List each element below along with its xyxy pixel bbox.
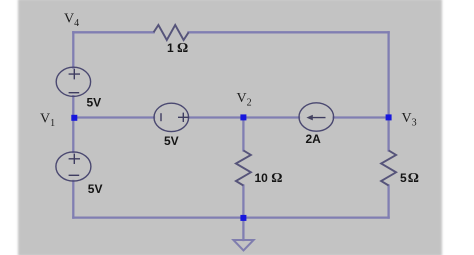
current source IS1 circle [299, 103, 334, 131]
VS2 minus sign [69, 174, 80, 176]
wire right vertical lower (R3 bottom to bottom rail) [387, 186, 389, 218]
VS1 minus sign [69, 92, 80, 94]
wire left vertical (V1 source bottom to V1 node) [72, 96, 74, 117]
svg-text:V4: V4 [64, 12, 79, 30]
svg-text:5V: 5V [164, 134, 179, 148]
svg-text:1 Ω: 1 Ω [167, 41, 188, 56]
svg-text:5Ω: 5Ω [400, 171, 419, 186]
wire middle horizontal V1 to V2 source [73, 116, 154, 118]
VS3 minus sign (vertical bar, rotated) [160, 113, 162, 121]
voltage source VS2 circle [56, 152, 91, 181]
voltage source VS3 circle (middle) [154, 103, 189, 131]
node bottom junction square [240, 215, 246, 221]
svg-text:5V: 5V [87, 96, 102, 110]
IS1 arrow shaft [309, 117, 326, 119]
ground symbol triangle [233, 240, 253, 250]
svg-text:V2: V2 [237, 91, 252, 109]
svg-text:V1: V1 [40, 111, 55, 129]
svg-text:5V: 5V [88, 182, 103, 196]
voltage source VS1 circle [56, 67, 90, 96]
wire ground stub [242, 218, 244, 240]
node V1 square [71, 115, 77, 121]
wire middle horizontal current source to V3 [334, 116, 389, 118]
wire top-left vertical (V4 branch) [72, 32, 74, 67]
VS2 plus sign [69, 154, 80, 164]
wire left vertical lower (source bottom to bottom rail) [72, 181, 74, 218]
resistor R3 5ohm zigzag [381, 150, 396, 185]
wire right vertical (V3 to R3 top) [387, 118, 389, 151]
svg-text:10 Ω: 10 Ω [255, 171, 283, 186]
resistor R1 1ohm zigzag [154, 25, 189, 40]
wire middle horizontal V2 to current source [243, 116, 299, 118]
svg-text:V3: V3 [402, 111, 417, 129]
VS1 plus sign [69, 69, 80, 80]
svg-text:2A: 2A [306, 132, 322, 146]
wire top horizontal left of R1 [73, 31, 153, 33]
wire R2 bottom to bottom node [242, 186, 244, 218]
IS1 arrow head [306, 115, 312, 121]
wire top horizontal right of R1 [189, 31, 389, 33]
resistor R2 10ohm zigzag [236, 150, 251, 185]
wire right vertical upper (top rail to V3) [387, 32, 389, 117]
wire V2 node down to R2 top [242, 118, 244, 151]
VS3 plus sign [178, 113, 189, 122]
node V3 square [386, 114, 392, 120]
wire bottom rail [73, 216, 388, 218]
node V2 square [240, 114, 246, 120]
wire left vertical (V1 node to lower source top) [72, 118, 74, 153]
wire middle horizontal source to V2 node [189, 116, 244, 118]
